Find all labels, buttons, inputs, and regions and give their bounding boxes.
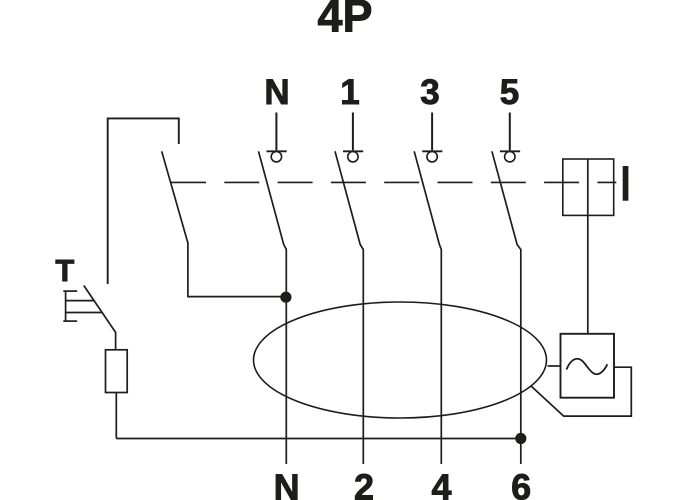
terminal circle pole 3 bbox=[427, 152, 437, 162]
solenoid plunger line bbox=[587, 159, 589, 334]
svg-text:4P: 4P bbox=[317, 0, 372, 42]
test contact blade bbox=[84, 286, 116, 350]
relay K1 (box with sine wave) bbox=[561, 334, 615, 398]
wire resistor to bottom bbox=[115, 393, 117, 439]
switch blade pole 5 bbox=[492, 151, 521, 464]
switch blade pole 3 bbox=[414, 151, 441, 464]
svg-text:6: 6 bbox=[511, 467, 531, 500]
svg-text:N: N bbox=[264, 73, 289, 112]
svg-text:5: 5 bbox=[500, 73, 519, 112]
terminal contact bar pole 3 bbox=[422, 150, 442, 152]
test button actuator rod upper bbox=[66, 300, 94, 302]
test push-button cap bbox=[63, 291, 77, 321]
terminal circle pole N bbox=[271, 152, 281, 162]
switch blade pole 1 bbox=[335, 151, 363, 464]
operating handle hook bbox=[108, 118, 179, 284]
wire lead from label 3 bbox=[431, 113, 433, 151]
svg-text:N: N bbox=[274, 467, 300, 500]
terminal contact bar pole 1 bbox=[343, 150, 363, 152]
terminal contact bar pole 5 bbox=[500, 150, 520, 152]
resistor (test resistor) bbox=[106, 350, 128, 393]
bottom wire bbox=[116, 438, 521, 440]
operating lever blade bbox=[162, 151, 286, 296]
wire lead from label N bbox=[275, 113, 277, 151]
svg-text:3: 3 bbox=[420, 73, 439, 112]
trip solenoid U1 (actuator box) bbox=[563, 159, 614, 215]
junction dot at pole 6 bbox=[515, 433, 526, 444]
terminal circle pole 5 bbox=[505, 152, 515, 162]
terminal contact bar pole N bbox=[267, 150, 287, 152]
svg-text:T: T bbox=[55, 253, 74, 288]
svg-text:2: 2 bbox=[354, 467, 374, 500]
wire lead from label 1 bbox=[352, 113, 354, 151]
junction dot at N pole bbox=[280, 292, 291, 303]
wire relay return loop bbox=[531, 367, 632, 416]
switch blade pole N bbox=[259, 151, 287, 464]
svg-text:4: 4 bbox=[431, 467, 451, 500]
actuator stop bar bbox=[623, 166, 629, 201]
svg-text:1: 1 bbox=[340, 73, 359, 112]
toroid current transformer bbox=[254, 302, 547, 418]
sine wave symbol bbox=[567, 359, 608, 374]
wire lead from label 5 bbox=[509, 113, 511, 151]
mechanical linkage (dashed line) bbox=[171, 181, 616, 183]
test button actuator rod lower bbox=[66, 312, 102, 314]
terminal circle pole 1 bbox=[348, 152, 358, 162]
wire toroid to relay bbox=[548, 365, 561, 367]
